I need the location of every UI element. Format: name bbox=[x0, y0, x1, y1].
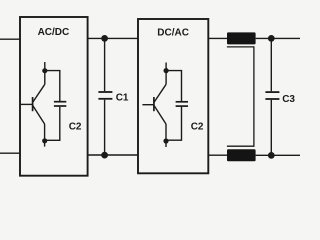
wire: output bottom rail to L2 bbox=[209, 154, 228, 156]
wire: C3 branch upper bbox=[270, 38, 272, 91]
wire: L1 to output top bbox=[256, 37, 300, 39]
svg-text:C2: C2 bbox=[69, 121, 82, 132]
wire: C2 bottom to Q1 emitter bbox=[45, 107, 60, 141]
node: C3 bottom junction bbox=[268, 152, 275, 159]
wire: C2 bottom to Q2 emitter bbox=[166, 107, 182, 140]
node: Q1 emitter junction bbox=[42, 138, 47, 143]
wire: Q2 collector to C2 top bbox=[166, 71, 181, 101]
wire: C3 branch lower bbox=[270, 100, 272, 156]
capacitor C1 bbox=[98, 92, 112, 99]
wire: Q1 collector to C2 top bbox=[45, 71, 60, 101]
wire: output top rail to L1 bbox=[209, 37, 228, 39]
wire: DC link top rail bbox=[88, 37, 138, 39]
svg-text:C1: C1 bbox=[116, 93, 129, 104]
node: Q2 emitter junction bbox=[163, 138, 168, 143]
transistor Q2 bbox=[142, 63, 166, 148]
svg-text:DC/AC: DC/AC bbox=[157, 28, 189, 39]
node: Q1 collector junction bbox=[42, 68, 47, 73]
core: L1/L2 common core bracket bbox=[227, 47, 254, 146]
wire: C1 branch upper bbox=[104, 38, 106, 91]
wire: DC link bottom rail bbox=[88, 154, 138, 156]
svg-text:C3: C3 bbox=[282, 94, 295, 105]
node: C1 top junction bbox=[101, 35, 108, 42]
inductor L1 (top filter choke) bbox=[227, 32, 256, 44]
inductor L2 (bottom filter choke) bbox=[227, 149, 256, 161]
wire: AC input bottom line bbox=[0, 152, 21, 154]
wire: C1 branch lower bbox=[104, 100, 106, 155]
capacitor C2 (in U1) bbox=[54, 102, 66, 106]
wire: AC input top line bbox=[0, 38, 21, 40]
converter block U2 (DC/AC) bbox=[138, 19, 208, 173]
capacitor C3 bbox=[265, 92, 279, 99]
svg-text:C2: C2 bbox=[191, 122, 204, 133]
node: C1 bottom junction bbox=[101, 152, 108, 159]
wire: L2 to output bottom bbox=[256, 154, 300, 156]
converter block U1 (AC/DC) bbox=[20, 17, 88, 176]
transistor Q1 bbox=[21, 62, 45, 147]
node: C3 top junction bbox=[268, 35, 275, 42]
svg-text:AC/DC: AC/DC bbox=[38, 27, 70, 38]
node: Q2 collector junction bbox=[164, 68, 169, 73]
capacitor C2 (in U2) bbox=[176, 102, 188, 106]
